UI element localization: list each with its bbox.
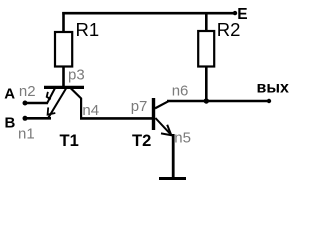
junction dot n6/R2	[204, 98, 209, 103]
terminal dot output	[267, 99, 271, 103]
svg-text:p3: p3	[68, 66, 85, 83]
svg-text:B: B	[5, 114, 16, 131]
terminal dot B	[23, 116, 28, 121]
svg-text:R2: R2	[217, 19, 241, 40]
svg-text:R1: R1	[76, 19, 100, 40]
ground	[159, 177, 186, 180]
svg-text:n1: n1	[18, 126, 35, 143]
wire R1 top lead	[62, 12, 65, 32]
terminal dot A	[23, 101, 28, 106]
transistor T1 collector	[71, 88, 82, 118]
transistor T2 collector	[155, 101, 169, 108]
svg-text:p7: p7	[131, 98, 148, 115]
wire R1 bottom lead	[62, 67, 65, 89]
wire R2 bottom lead	[205, 67, 208, 103]
transistor T2 emitter	[155, 118, 171, 135]
svg-text:T1: T1	[60, 132, 79, 150]
transistor T1 base bar	[44, 86, 84, 89]
wire n6 output	[167, 100, 269, 103]
svg-text:n4: n4	[82, 102, 99, 119]
svg-text:n5: n5	[174, 129, 191, 146]
wire input B	[25, 117, 51, 120]
svg-text:n6: n6	[172, 83, 189, 100]
svg-text:вых: вых	[257, 80, 290, 97]
wire R2 top lead	[205, 12, 208, 31]
transistor T2 base bar	[152, 98, 155, 130]
svg-text:T2: T2	[132, 132, 151, 150]
transistor T1 emitter 2	[48, 89, 66, 119]
transistor T1 emitter 1	[47, 89, 55, 104]
terminal dot E	[233, 11, 237, 15]
wire input A	[25, 102, 48, 105]
wire top rail E	[62, 12, 236, 15]
svg-text:A: A	[4, 85, 15, 102]
wire n4	[80, 117, 153, 120]
wire T2 emitter to ground	[172, 134, 175, 179]
resistor R2	[198, 31, 214, 67]
svg-text:n2: n2	[19, 83, 36, 100]
resistor R1	[55, 32, 72, 67]
